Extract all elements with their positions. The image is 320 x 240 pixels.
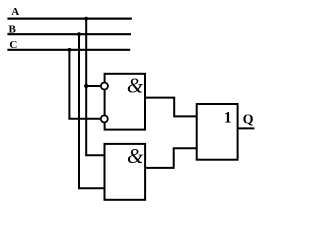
wire: input bus A [7,18,131,20]
svg-text:A: A [11,6,19,18]
junction dot on bus B tap [77,32,81,36]
OR gate U3 body [197,104,238,160]
wire: vertical drop from bus B [78,34,80,188]
wire: input bus C [7,49,130,51]
svg-text:&: & [127,74,144,98]
inverting bubble on U1 input 1 [101,83,108,90]
wire: gate U1 input 2 (from C drop to bubble) [68,118,100,120]
svg-text:Q: Q [243,113,254,128]
svg-text:1: 1 [224,109,232,126]
wire: vertical drop from bus A [85,19,87,156]
junction dot on bus A tap [84,17,88,21]
wire: U2 output to U3 input 2 [145,148,197,168]
junction dot on bus C tap [68,48,72,52]
wire: U1 output to U3 input 1 [145,98,197,117]
AND gate U2 body [105,144,146,200]
wire: vertical drop from bus C [68,50,70,119]
AND gate U1 body [105,74,145,130]
wire: gate U1 input 1 (from A drop to bubble) [86,85,100,87]
wire: input bus B [7,33,131,35]
wire: gate U2 input 2 (corner from B drop) [78,187,105,189]
junction dot at A drop / U1 input 1 [84,84,88,88]
svg-text:&: & [127,144,144,168]
wire: gate U2 input 1 (corner from A drop) [85,154,104,156]
wire: output Q from U3 [238,127,255,129]
inverting bubble on U1 input 2 [101,115,108,122]
